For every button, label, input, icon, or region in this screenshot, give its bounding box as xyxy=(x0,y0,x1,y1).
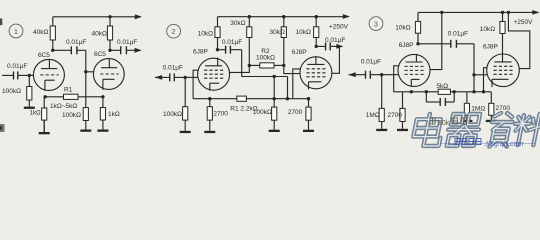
svg-text:2700: 2700 xyxy=(288,109,303,116)
label 30k#1 c2 xyxy=(230,20,245,27)
label 2700 V1 c3 xyxy=(388,112,403,119)
label coupling cap c1 xyxy=(66,39,86,46)
input wire circuit 1 xyxy=(2,71,34,79)
node R2 right xyxy=(282,64,285,67)
label 6J8P V1 c3 xyxy=(399,42,414,49)
svg-text:R1: R1 xyxy=(64,87,73,94)
label R1 value xyxy=(50,103,77,110)
node rail 10k#2 xyxy=(315,15,318,18)
label 1M grid c3 xyxy=(366,112,380,119)
wire screen V1 c3 xyxy=(430,12,442,69)
ground grid V1 xyxy=(24,100,35,109)
svg-text:30kΩ: 30kΩ xyxy=(230,20,245,27)
resistor 1M grid V1 c3 xyxy=(379,75,384,122)
resistor 40k#2 (plate load V2) xyxy=(107,17,112,51)
svg-text:1kΩ: 1kΩ xyxy=(108,111,120,118)
label 1k cathode V1 xyxy=(30,110,42,117)
wire screen V1 c2 xyxy=(230,65,250,72)
label 100k grid c2 xyxy=(163,111,182,118)
resistor 10k#2 plate V2 c2 xyxy=(314,17,319,47)
svg-text:0.01μF: 0.01μF xyxy=(325,37,345,44)
node rail 30k#1 xyxy=(248,15,251,18)
label input cap c1 xyxy=(7,63,27,70)
capacitor 0.01uF coupling c1 xyxy=(53,46,86,54)
B+ rail circuit 3 xyxy=(418,11,534,13)
watermark big text dian-qi-zi-liao xyxy=(411,113,540,147)
svg-text:+250V: +250V xyxy=(329,23,349,30)
node screen V1 c2 xyxy=(248,64,251,67)
watermark url text bottom xyxy=(440,139,535,149)
node rail screen V1 c3 xyxy=(440,11,443,14)
node plate V2 c2 xyxy=(315,45,318,48)
svg-text:6C5: 6C5 xyxy=(94,51,106,58)
resistor 2700 cathode V2 c3 xyxy=(489,92,494,116)
node grid V1 c3 xyxy=(380,73,383,76)
label input cap c2 xyxy=(163,65,183,72)
resistor 2700 cathode V1 c3 xyxy=(400,92,405,122)
svg-text:0.01μF: 0.01μF xyxy=(66,39,86,46)
node grid V2 junction xyxy=(84,70,87,73)
label 6C5 V1 xyxy=(38,52,50,59)
label 5k c3 xyxy=(436,83,448,90)
B+ rail arrow circuit 2 xyxy=(343,14,350,19)
output arrow circuit 2 xyxy=(336,44,343,49)
output arrow circuit 1 xyxy=(135,48,142,53)
label R1 2.2k c2 xyxy=(230,105,257,112)
label output cap c2 xyxy=(325,37,345,44)
svg-text:100kΩ: 100kΩ xyxy=(2,88,21,95)
label +250V circuit 2 xyxy=(329,23,349,30)
svg-text:40kΩ: 40kΩ xyxy=(92,30,107,37)
label input cap c3 xyxy=(361,59,381,66)
B+ rail circuit 2 xyxy=(218,16,345,18)
resistor 2700 cathode V1 c2 xyxy=(207,99,212,120)
node 5k left c3 xyxy=(425,90,428,93)
wire coupling-to-grid vertical c1 xyxy=(85,50,87,97)
wire g3 loop V2 c2 xyxy=(293,69,301,99)
svg-text:80k: 80k xyxy=(438,120,450,127)
label 6J8P V1 c2 xyxy=(193,48,208,55)
tube V1 6J8P c2 xyxy=(198,58,230,91)
label 100k divider c2 xyxy=(253,109,272,116)
resistor 40k#1 (plate load V1) xyxy=(50,17,55,51)
capacitor bypass c3 xyxy=(426,92,454,106)
B+ rail circuit 1 xyxy=(53,16,137,18)
node 5k right c3 xyxy=(453,90,456,93)
wire coupling drop to grid V2 c3 xyxy=(473,44,475,92)
node cathode V1 xyxy=(44,95,47,98)
resistor 10k#2 plate V2 c3 xyxy=(500,12,505,54)
svg-text:10kΩ: 10kΩ xyxy=(395,24,410,31)
node plate V2 xyxy=(108,49,111,52)
ground 2700 V2 c2 xyxy=(303,120,314,132)
svg-text:2: 2 xyxy=(172,29,176,36)
resistor 5k common cathode c3 xyxy=(438,89,450,94)
svg-text:6J8P: 6J8P xyxy=(399,42,414,49)
tube V2 6J8P c3 xyxy=(487,54,520,88)
resistor R1 1k-5k xyxy=(64,94,79,99)
label 1k cathode V2 xyxy=(108,111,120,118)
capacitor 0.01uF output c2 xyxy=(316,42,337,50)
svg-text:0.01μF: 0.01μF xyxy=(117,39,137,46)
node rail 10k#2 c3 xyxy=(501,11,504,14)
svg-text:5kΩ: 5kΩ xyxy=(436,83,448,90)
label 10k#2 c3 xyxy=(480,26,495,33)
ground grid V1 c2 xyxy=(180,120,191,133)
svg-text:0.01μF: 0.01μF xyxy=(7,63,27,70)
node g3 bottom c2 xyxy=(286,97,289,100)
ground cathode V1 xyxy=(39,120,50,134)
tube V1 6C5 xyxy=(33,59,64,91)
ground 1M grid c3 xyxy=(376,122,387,132)
resistor 10k#1 plate V1 c3 xyxy=(415,12,420,43)
svg-text:+250V: +250V xyxy=(514,19,534,26)
svg-text:100kΩ: 100kΩ xyxy=(62,112,81,119)
label 1M divider c3 xyxy=(471,106,485,113)
svg-text:6J8P: 6J8P xyxy=(193,48,208,55)
svg-text:0.01μF: 0.01μF xyxy=(448,30,468,37)
capacitor 0.01uF output c1 xyxy=(110,46,136,54)
node cathode V1 c3 xyxy=(410,90,413,93)
label 6J8P V2 c3 xyxy=(483,44,498,51)
ground 1M divider c3 xyxy=(461,115,472,122)
resistor 100k divider mid xyxy=(83,97,88,121)
svg-text:10kΩ: 10kΩ xyxy=(480,26,495,33)
label coupling cap c2 xyxy=(222,39,242,46)
svg-text:0.01μF: 0.01μF xyxy=(163,65,183,72)
input arrow circuit 2 xyxy=(155,75,162,80)
wire screen V2 c2 xyxy=(332,46,340,73)
wire cathode bus c3 xyxy=(394,91,492,93)
ground 2700 V1 c2 xyxy=(204,120,215,133)
node plate V1 xyxy=(51,49,54,52)
svg-text:6J8P: 6J8P xyxy=(483,44,498,51)
label 30k#2 c2 xyxy=(270,29,285,36)
ground 100k divider c2 xyxy=(269,120,280,132)
resistor 1M divider c3 xyxy=(464,92,469,116)
input wire circuit 2 xyxy=(155,73,198,81)
label R2 xyxy=(261,48,270,55)
svg-text:0.01μF: 0.01μF xyxy=(361,59,381,66)
node grid V2 c3 xyxy=(472,73,475,76)
B+ rail arrow circuit 3 xyxy=(532,10,539,15)
label 6J8P V2 c2 xyxy=(292,49,307,56)
resistor 1k cathode V1 xyxy=(42,97,47,132)
input arrow circuit 3 xyxy=(349,72,356,77)
wire coupling drop c2 xyxy=(242,50,288,77)
resistor 1k cathode V2 xyxy=(100,97,105,120)
svg-text:0.01μF: 0.01μF xyxy=(222,39,242,46)
resistor 100k divider c2 xyxy=(272,99,277,121)
label 6C5 V2 xyxy=(94,51,106,58)
label R1 xyxy=(64,87,73,94)
label 2700 V2 c2 xyxy=(288,109,303,116)
wire g3 loop V1 c3 xyxy=(394,66,399,92)
circuit 3 label (circled 3) xyxy=(369,17,383,31)
scan artifact left edge bottom xyxy=(0,124,5,132)
label 40k#2 xyxy=(92,30,107,37)
svg-text:1MΩ: 1MΩ xyxy=(366,112,380,119)
svg-text:1: 1 xyxy=(14,29,18,36)
wire screen V2 c3 xyxy=(508,12,529,68)
node divider bottom c2 xyxy=(273,97,276,100)
node divider tap c2 xyxy=(273,75,276,78)
wire g3 jog V2 c3 xyxy=(484,68,488,92)
wire grid V2 lead c3 xyxy=(474,74,487,76)
resistor 100k grid V1 c2 xyxy=(183,77,188,120)
scan artifact left edge top xyxy=(0,19,2,26)
label 100k grid V1 xyxy=(2,88,21,95)
resistor 10k#1 plate V1 c2 xyxy=(215,17,220,50)
label 2700 V2 c3 xyxy=(496,105,511,112)
svg-text:3: 3 xyxy=(374,22,378,29)
wire grid V2 feed c2 xyxy=(284,65,300,73)
wire g3 drop V2 c2 xyxy=(287,77,289,99)
B+ rail arrow circuit 1 xyxy=(135,14,142,19)
svg-text:6J8P: 6J8P xyxy=(292,49,307,56)
svg-text:2700: 2700 xyxy=(388,112,403,119)
label R2 value xyxy=(256,54,275,61)
resistor 30k#2 c2 xyxy=(281,17,286,66)
tube V2 6J8P c2 xyxy=(300,56,332,89)
capacitor 0.01uF coupling c3 xyxy=(418,40,474,48)
label 100k divider xyxy=(62,112,81,119)
watermark small text top xyxy=(430,118,467,127)
label 10k#1 c3 xyxy=(395,24,410,31)
tube V1 6J8P c3 xyxy=(398,54,430,87)
circuit 1 label (circled 1) xyxy=(9,24,23,38)
node plate V1 c3 xyxy=(416,42,419,45)
svg-text:10kΩ: 10kΩ xyxy=(198,30,213,37)
resistor 2700 cathode V2 c2 xyxy=(306,99,311,121)
node rail 30k#2 xyxy=(282,15,285,18)
label coupling cap c3 xyxy=(448,30,468,37)
label 10k#1 c2 xyxy=(198,30,213,37)
svg-text:10kΩ: 10kΩ xyxy=(296,29,311,36)
svg-text:40kΩ: 40kΩ xyxy=(33,29,48,36)
input wire circuit 3 xyxy=(349,71,399,79)
node plate V1 c2 xyxy=(216,48,219,51)
svg-text:1MΩ: 1MΩ xyxy=(471,106,485,113)
wire g3 loop V1 c2 xyxy=(193,70,198,99)
resistor R1 2.2k c2 xyxy=(237,96,247,101)
resistor 30k#1 c2 xyxy=(247,17,252,66)
ground divider mid xyxy=(80,121,91,132)
node grid V1 c2 xyxy=(184,76,187,79)
svg-text:30kΩ: 30kΩ xyxy=(270,29,285,36)
wire cathode bus circuit 1 xyxy=(44,96,103,98)
svg-text:2700: 2700 xyxy=(213,111,228,118)
svg-text:100kΩ: 100kΩ xyxy=(253,109,272,116)
resistor 100k grid V1 xyxy=(27,75,32,100)
node grid V1 xyxy=(28,74,31,77)
ground 2700 V2 c3 xyxy=(486,115,497,122)
node rail screen V2 c3 xyxy=(507,11,510,14)
node grid drop bottom c3 xyxy=(472,90,475,93)
wire cathode bus c2 xyxy=(193,98,308,100)
node rail-R2 junction circuit 1 xyxy=(108,15,111,18)
ground cathode V2 xyxy=(97,120,108,132)
svg-text:1kΩ~5kΩ: 1kΩ~5kΩ xyxy=(50,103,77,110)
capacitor 0.01uF coupling c2 xyxy=(218,46,242,54)
node cathode V2 xyxy=(101,95,104,98)
circuit 2 label (circled 2) xyxy=(167,24,181,38)
tube V2 6C5 xyxy=(93,58,124,90)
svg-text:100kΩ: 100kΩ xyxy=(256,54,275,61)
node cathode V2 c2 xyxy=(307,97,310,100)
svg-text:100kΩ: 100kΩ xyxy=(163,111,182,118)
node g3 bottom c3 xyxy=(482,90,485,93)
label 2700 V1 c2 xyxy=(213,111,228,118)
svg-text:6C5: 6C5 xyxy=(38,52,50,59)
label 10k#2 c2 xyxy=(296,29,311,36)
label output cap c1 xyxy=(117,39,137,46)
label 40k#1 xyxy=(33,29,48,36)
resistor R2 100k xyxy=(249,63,283,68)
wire tap to cathode bus c2 xyxy=(273,77,275,99)
ground 2700 V1 c3 xyxy=(397,122,408,132)
label +250V circuit 3 xyxy=(514,19,534,26)
svg-text:1kΩ: 1kΩ xyxy=(30,110,42,117)
node cathode V1 c2 xyxy=(208,97,211,100)
wire grid V2 lead xyxy=(86,71,94,73)
